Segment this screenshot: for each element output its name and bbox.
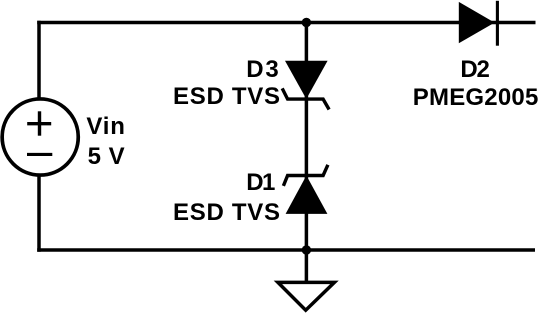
- svg-text:D1: D1: [246, 169, 275, 196]
- svg-text:PMEG2005: PMEG2005: [413, 84, 539, 111]
- svg-text:ESD TVS: ESD TVS: [173, 83, 280, 110]
- svg-text:D2: D2: [460, 56, 490, 83]
- svg-text:5 V: 5 V: [88, 143, 125, 170]
- svg-text:ESD TVS: ESD TVS: [173, 199, 280, 226]
- svg-text:D3: D3: [246, 56, 279, 83]
- svg-text:Vin: Vin: [86, 113, 125, 140]
